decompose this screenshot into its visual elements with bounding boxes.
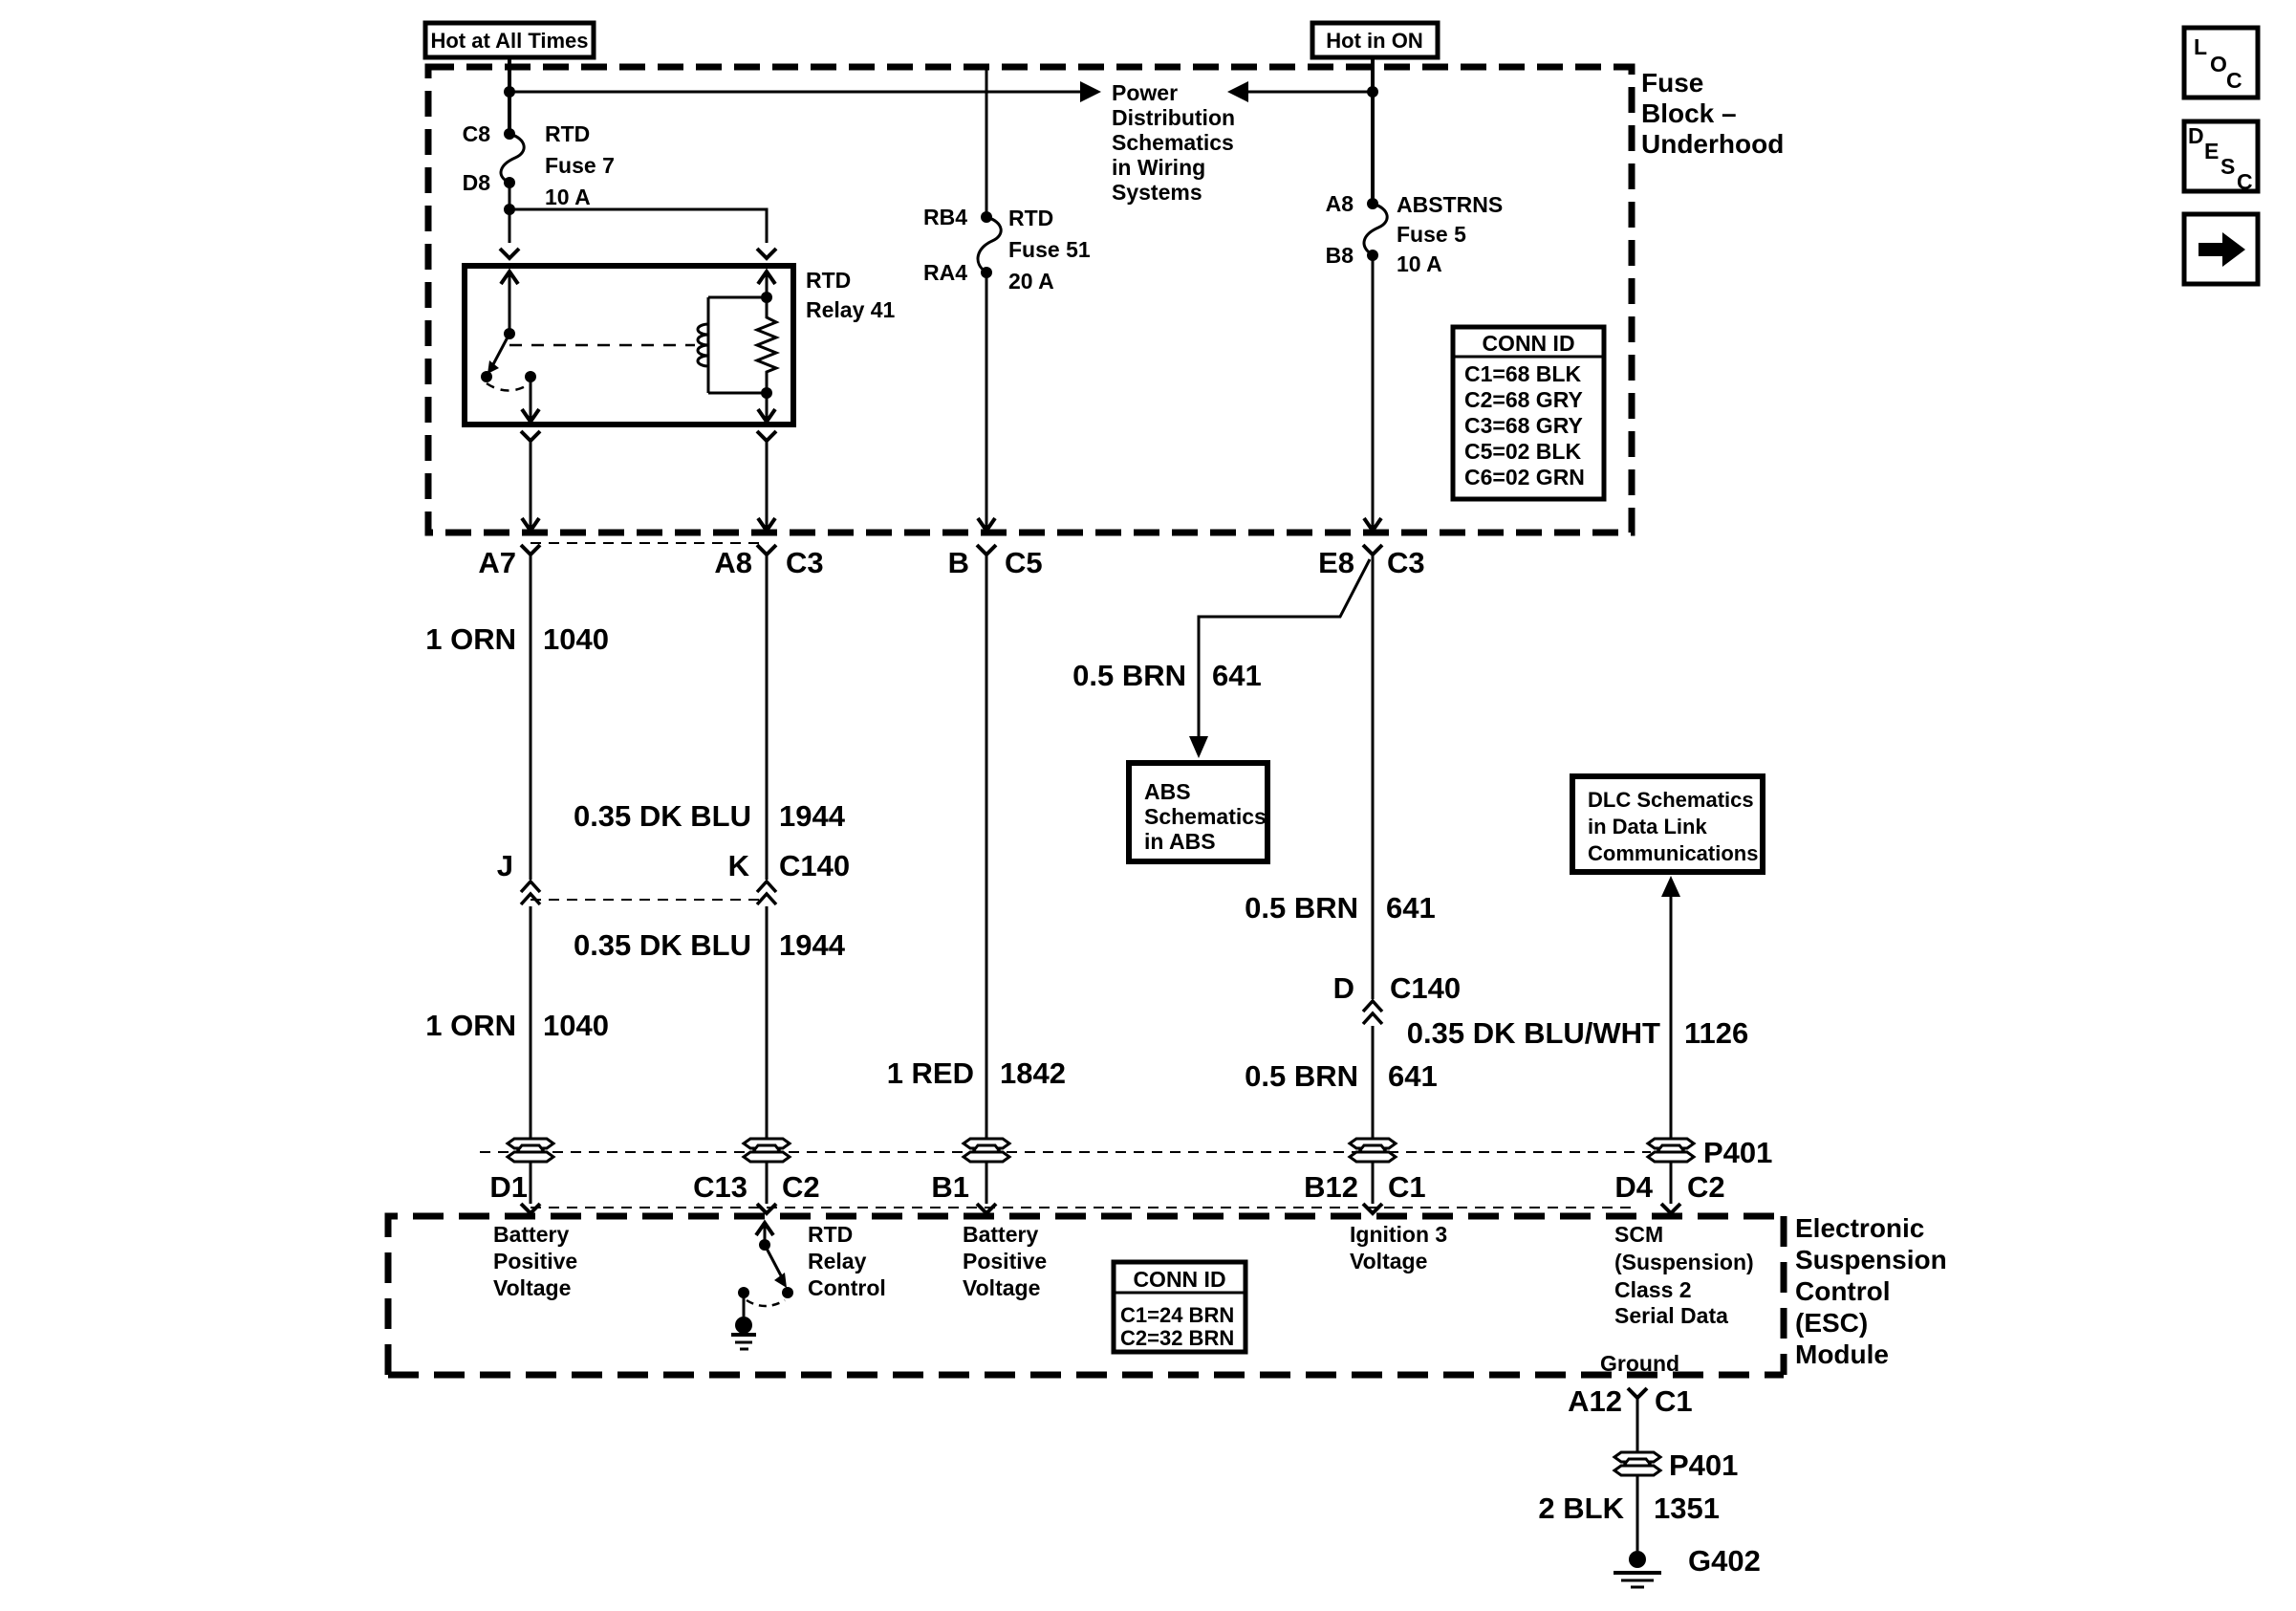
svg-text:Communications: Communications — [1588, 841, 1758, 865]
node: top junction col1 — [504, 86, 515, 98]
svg-text:C1: C1 — [1388, 1170, 1426, 1204]
svg-text:RTD: RTD — [545, 121, 590, 146]
node C13/C2 connector — [757, 1204, 776, 1213]
svg-text:Electronic: Electronic — [1795, 1213, 1924, 1243]
svg-text:P401: P401 — [1669, 1448, 1738, 1482]
svg-text:A12: A12 — [1568, 1384, 1622, 1418]
wire: hot at all times feed — [508, 57, 511, 134]
wire: top horizontal to power distribution — [509, 91, 1086, 94]
relay coil pin 85 (down arrow) — [766, 393, 769, 423]
svg-text:C2=68 GRY: C2=68 GRY — [1464, 387, 1583, 412]
svg-text:C5=02 BLK: C5=02 BLK — [1464, 439, 1581, 464]
svg-text:D8: D8 — [463, 170, 491, 195]
thin dashed line A7-A8 — [531, 542, 767, 544]
grommet C13 — [744, 1139, 790, 1162]
dashed arc between contacts — [487, 383, 531, 391]
svg-text:D1: D1 — [489, 1170, 528, 1204]
thin dashed line J-K — [531, 899, 767, 901]
node A12/C1 connector — [1628, 1388, 1647, 1398]
svg-text:D4: D4 — [1614, 1170, 1653, 1204]
grommet P401 (ground) — [1614, 1452, 1660, 1475]
coil bottom connection — [708, 392, 767, 395]
svg-text:0.35 DK BLU/WHT: 0.35 DK BLU/WHT — [1407, 1016, 1660, 1050]
svg-text:Module: Module — [1795, 1339, 1889, 1369]
svg-text:C5: C5 — [1005, 546, 1043, 579]
Battery Positive Voltage (col1) — [493, 1222, 577, 1300]
svg-text:Systems: Systems — [1112, 180, 1202, 205]
svg-text:1126: 1126 — [1684, 1016, 1748, 1050]
wire col4 lower — [1372, 1026, 1375, 1139]
wire col2 upper: 0.35 DK BLU 1944 — [766, 555, 769, 880]
wire A12 ground — [1636, 1398, 1639, 1452]
svg-text:ABSTRNS: ABSTRNS — [1397, 192, 1503, 217]
grommet B1 — [964, 1139, 1009, 1162]
svg-text:Schematics: Schematics — [1112, 130, 1234, 155]
svg-text:Voltage: Voltage — [493, 1275, 571, 1300]
svg-text:Serial Data: Serial Data — [1614, 1303, 1728, 1328]
svg-text:0.5 BRN: 0.5 BRN — [1245, 891, 1358, 925]
svg-text:D: D — [1333, 971, 1354, 1005]
node C8 terminal — [504, 128, 515, 140]
grommet P401 — [1648, 1139, 1694, 1162]
svg-text:DLC Schematics: DLC Schematics — [1588, 788, 1754, 812]
arrowhead right to Power Distribution — [1080, 81, 1101, 102]
svg-text:B12: B12 — [1304, 1170, 1358, 1204]
relay output pin 87 (down arrow) — [530, 377, 532, 423]
svg-text:RB4: RB4 — [923, 205, 967, 229]
svg-text:C3=68 GRY: C3=68 GRY — [1464, 413, 1583, 438]
fuse F5 ABSTRNS Fuse 5 10A element — [1364, 204, 1387, 255]
svg-text:0.35 DK BLU: 0.35 DK BLU — [574, 799, 751, 833]
grommet B12 — [1350, 1139, 1396, 1162]
arrow icon box — [2184, 214, 2258, 284]
svg-text:Schematics: Schematics — [1144, 804, 1267, 829]
svg-text:C2: C2 — [782, 1170, 820, 1204]
relay pin 30 entering (up arrow) — [509, 271, 511, 334]
Fuse Block - Underhood dashed box — [428, 67, 1632, 533]
svg-text:C2: C2 — [1687, 1170, 1725, 1204]
Electronic Suspension Control (ESC) Module — [1795, 1213, 1947, 1369]
svg-text:C6=02 GRN: C6=02 GRN — [1464, 465, 1585, 490]
relay resistor — [757, 297, 776, 393]
node coil/resistor bottom — [761, 387, 772, 399]
node A8/C3 connector — [757, 545, 776, 555]
svg-text:RTD: RTD — [806, 268, 851, 293]
thin dashed line bottom connector row — [531, 1207, 1637, 1208]
svg-text:Relay: Relay — [808, 1249, 867, 1274]
svg-text:Ground: Ground — [1600, 1351, 1679, 1376]
dashed actuation line to coil — [509, 344, 695, 347]
svg-text:0.35 DK BLU: 0.35 DK BLU — [574, 928, 751, 962]
wire fuse5 to border — [1372, 255, 1375, 530]
svg-text:C2=32 BRN: C2=32 BRN — [1120, 1326, 1234, 1350]
wire: horizontal to relay coil pin — [509, 209, 767, 243]
svg-text:Positive: Positive — [493, 1249, 577, 1274]
wire relay coil to border — [766, 442, 769, 530]
DESC icon box — [2184, 121, 2258, 194]
svg-text:Ignition 3: Ignition 3 — [1350, 1222, 1447, 1247]
node coil/resistor top — [761, 292, 772, 303]
relay switch contact right (output) — [525, 371, 536, 382]
svg-text:E: E — [2204, 139, 2219, 163]
svg-text:J: J — [497, 849, 513, 882]
svg-text:10 A: 10 A — [1397, 251, 1442, 276]
svg-text:Suspension: Suspension — [1795, 1245, 1947, 1274]
node: junction below D8 — [504, 204, 515, 215]
wire col2 lower: 0.35 DK BLU 1944 — [766, 906, 769, 1139]
svg-text:C: C — [2237, 169, 2253, 194]
svg-text:1842: 1842 — [1000, 1056, 1066, 1090]
svg-text:K: K — [728, 849, 750, 882]
svg-text:1 ORN: 1 ORN — [425, 622, 516, 656]
svg-text:C8: C8 — [463, 121, 491, 146]
svg-text:A7: A7 — [478, 546, 516, 579]
wire fuse51 to border — [986, 272, 988, 530]
branch wire to ABS — [1199, 559, 1370, 738]
svg-text:RTD: RTD — [808, 1222, 853, 1247]
svg-text:ABS: ABS — [1144, 779, 1191, 804]
ESC module dashed box — [388, 1216, 1784, 1375]
svg-text:L: L — [2194, 34, 2207, 59]
svg-text:1 ORN: 1 ORN — [425, 1009, 516, 1042]
label box "Hot at All Times" — [425, 23, 594, 57]
svg-text:Voltage: Voltage — [963, 1275, 1040, 1300]
svg-text:C3: C3 — [1387, 546, 1425, 579]
node B1 connector — [977, 1204, 996, 1213]
wire below grommet col1 — [530, 1162, 532, 1204]
wire: left arrow from hot in ON junction — [1243, 91, 1373, 94]
svg-text:C140: C140 — [1390, 971, 1461, 1005]
svg-text:Positive: Positive — [963, 1249, 1047, 1274]
svg-text:D: D — [2188, 123, 2204, 148]
svg-text:1944: 1944 — [779, 799, 846, 833]
wire 2 BLK 1351 — [1636, 1475, 1639, 1551]
svg-text:(Suspension): (Suspension) — [1614, 1250, 1754, 1274]
svg-text:641: 641 — [1212, 659, 1262, 692]
grommet row thin dashed line — [480, 1151, 1651, 1153]
svg-text:C1=24 BRN: C1=24 BRN — [1120, 1303, 1234, 1327]
svg-text:A8: A8 — [1326, 191, 1354, 216]
node B/C5 connector — [977, 545, 996, 555]
Battery Positive Voltage (col3) — [963, 1222, 1047, 1300]
svg-text:2 BLK: 2 BLK — [1538, 1491, 1624, 1525]
wire below fuse7 — [509, 183, 511, 243]
svg-text:Distribution: Distribution — [1112, 105, 1235, 130]
wire col4 down from E8 — [1372, 555, 1375, 999]
svg-text:Relay 41: Relay 41 — [806, 297, 896, 322]
svg-text:A8: A8 — [714, 546, 752, 579]
wire relay output to border — [530, 442, 532, 530]
node RB4 terminal — [981, 211, 992, 223]
node: junction col4 top — [1367, 86, 1378, 98]
svg-text:O: O — [2210, 52, 2227, 76]
svg-text:1040: 1040 — [543, 1009, 609, 1042]
svg-text:Hot in ON: Hot in ON — [1326, 29, 1422, 53]
svg-text:S: S — [2220, 154, 2235, 179]
wire: hot in ON feed — [1371, 57, 1375, 204]
svg-text:P401: P401 — [1703, 1136, 1772, 1169]
svg-text:in Data Link: in Data Link — [1588, 815, 1707, 838]
svg-text:Fuse 5: Fuse 5 — [1397, 222, 1466, 247]
arrowhead left — [1227, 81, 1248, 102]
relay switch arm with arrowhead — [492, 334, 509, 366]
fuse F7 RTD Fuse 7 10A element — [501, 134, 524, 183]
svg-text:in ABS: in ABS — [1144, 829, 1216, 854]
label box "Hot in ON" — [1312, 23, 1438, 57]
relay switch pivot — [504, 328, 515, 339]
wire col1 upper: 1 ORN 1040 — [530, 555, 532, 880]
svg-text:C1=68 BLK: C1=68 BLK — [1464, 361, 1581, 386]
svg-text:RTD: RTD — [1008, 206, 1053, 230]
fuse F51 RTD Fuse 51 20A element — [978, 217, 1001, 272]
connector chevron below relay right — [757, 431, 776, 441]
svg-text:Control: Control — [808, 1275, 886, 1300]
svg-text:1 RED: 1 RED — [887, 1056, 974, 1090]
node D1 connector — [521, 1204, 540, 1213]
grommet D1 — [508, 1139, 553, 1162]
svg-text:C: C — [2226, 68, 2242, 93]
relay coil — [698, 297, 708, 393]
relay switch contact left — [481, 371, 492, 382]
svg-text:Fuse 7: Fuse 7 — [545, 153, 615, 178]
relay RTD Relay 41 box — [465, 266, 793, 425]
svg-text:Hot at All Times: Hot at All Times — [430, 29, 588, 53]
node A7 connector — [521, 545, 540, 555]
RTD Relay Control switch — [738, 1222, 793, 1306]
ABS Schematics box — [1129, 763, 1267, 861]
node RA4 terminal — [981, 267, 992, 278]
wire col5 up arrow to DLC — [1670, 895, 1673, 1139]
svg-text:SCM: SCM — [1614, 1222, 1663, 1247]
svg-text:Control: Control — [1795, 1276, 1891, 1306]
svg-text:(ESC): (ESC) — [1795, 1308, 1868, 1338]
node B12/C1 connector — [1363, 1204, 1382, 1213]
svg-text:641: 641 — [1388, 1059, 1438, 1093]
svg-text:Power: Power — [1112, 80, 1178, 105]
connector chevron below relay left — [521, 431, 540, 441]
svg-text:B1: B1 — [931, 1170, 969, 1204]
svg-text:641: 641 — [1386, 891, 1436, 925]
svg-text:0.5 BRN: 0.5 BRN — [1245, 1059, 1358, 1093]
node D4/C2 connector — [1661, 1204, 1680, 1213]
svg-text:Battery: Battery — [963, 1222, 1038, 1247]
Power Distribution text — [1112, 80, 1235, 205]
svg-text:CONN ID: CONN ID — [1482, 331, 1574, 356]
wire col1 lower: 1 ORN 1040 — [530, 906, 532, 1139]
svg-text:Underhood: Underhood — [1641, 129, 1784, 159]
connector chevron above relay left pin — [500, 249, 519, 258]
wire hot feed to fuse 51 — [986, 67, 988, 217]
LOC icon box — [2184, 28, 2258, 98]
svg-text:G402: G402 — [1688, 1544, 1761, 1578]
svg-text:in Wiring: in Wiring — [1112, 155, 1205, 180]
DLC Schematics box — [1572, 776, 1763, 872]
svg-text:20 A: 20 A — [1008, 269, 1054, 294]
CONN ID table (fuse block) — [1453, 327, 1604, 499]
svg-text:Fuse: Fuse — [1641, 68, 1703, 98]
node E8/C3 connector — [1363, 545, 1382, 555]
svg-text:C140: C140 — [779, 849, 850, 882]
svg-text:Block –: Block – — [1641, 98, 1737, 128]
svg-text:1351: 1351 — [1654, 1491, 1720, 1525]
svg-text:Fuse 51: Fuse 51 — [1008, 237, 1091, 262]
svg-text:0.5 BRN: 0.5 BRN — [1072, 659, 1186, 692]
ground G402 — [1614, 1551, 1661, 1587]
CONN ID table (ESC) — [1114, 1262, 1245, 1352]
svg-text:1944: 1944 — [779, 928, 846, 962]
wire col3: 1 RED 1842 — [986, 555, 988, 1139]
relay pin 86 entering (up arrow) — [766, 271, 769, 297]
svg-text:C13: C13 — [693, 1170, 747, 1204]
svg-text:RA4: RA4 — [923, 260, 967, 285]
svg-text:Battery: Battery — [493, 1222, 569, 1247]
svg-text:10 A: 10 A — [545, 185, 591, 209]
svg-text:CONN ID: CONN ID — [1133, 1267, 1225, 1292]
connector chevron above relay right pin — [757, 249, 776, 258]
svg-text:Voltage: Voltage — [1350, 1249, 1427, 1274]
svg-text:B8: B8 — [1326, 243, 1354, 268]
svg-text:1040: 1040 — [543, 622, 609, 656]
arrowhead into ABS box — [1189, 736, 1208, 758]
ground (RTD relay control) — [731, 1293, 756, 1349]
svg-text:Class 2: Class 2 — [1614, 1277, 1692, 1302]
svg-text:C3: C3 — [786, 546, 824, 579]
node D8 terminal — [504, 177, 515, 188]
svg-text:E8: E8 — [1318, 546, 1354, 579]
node B8 terminal — [1367, 250, 1378, 261]
svg-text:B: B — [948, 546, 969, 579]
svg-text:C1: C1 — [1655, 1384, 1693, 1418]
SCM labels (col5) — [1614, 1222, 1754, 1328]
Ignition 3 Voltage (col4) — [1350, 1222, 1447, 1274]
coil top connection — [708, 296, 767, 299]
node A8 terminal (fuse 5) — [1367, 198, 1378, 209]
